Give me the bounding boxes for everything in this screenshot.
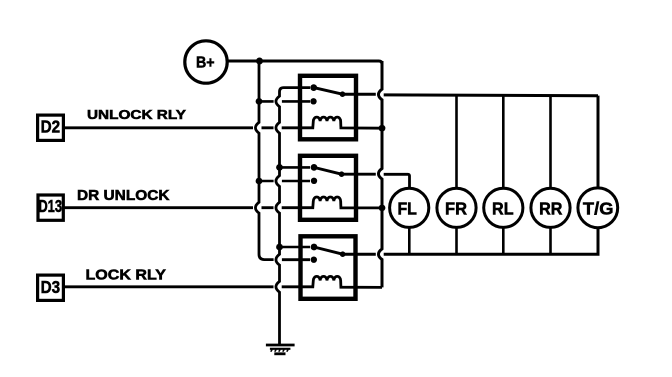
wire: ground bus (switch pivot feed) with hops [276,88,310,345]
wire relay3 output / bottom bus [343,228,598,254]
top bus right corner down to T/G [597,96,600,188]
wire D13 to relay2 coil, coil R2, to B+ bus [65,197,383,208]
relay1 pivot dot [310,84,317,91]
wire: relay1 NC contact feed [259,100,310,103]
svg-text:D13: D13 [38,196,62,216]
wire B+ to right bus corner [227,61,382,64]
relay2 pivot dot [311,164,318,171]
wire FR to bottom bus [455,228,458,254]
relay3 blade contact dot [340,251,346,257]
svg-text:FR: FR [445,198,467,218]
svg-text:RR: RR [539,198,563,218]
svg-text:B+: B+ [196,54,215,71]
svg-text:DR UNLOCK: DR UNLOCK [77,188,170,204]
relay3 blade [314,247,343,254]
svg-text:RL: RL [492,198,514,218]
B+ bus vertical with hops over relay outputs [378,61,382,287]
wire RL to bottom bus [502,228,505,254]
wire: left bus (NC contact feed) with hops over D2/D13 wires [255,61,310,260]
relay UNLOCK RLY box [300,76,356,140]
wire: relay2 pivot feed [280,166,311,169]
wire relay2 output to FL [342,174,410,188]
motor RL [484,188,523,227]
connector D13 [38,195,63,220]
relay1 blade [314,88,343,95]
ground [266,345,295,354]
relay2 blade contact dot [339,171,345,177]
relay DR UNLOCK box [300,156,356,220]
motor T/G [578,188,618,228]
svg-text:FL: FL [397,198,417,218]
relay LOCK RLY box [301,236,356,298]
wire: relay3 pivot feed [280,246,311,249]
svg-text:D3: D3 [41,277,61,297]
wire FL to bottom bus [408,228,411,254]
node: relay1 NC contact dot [310,98,316,104]
wire D3 to relay3 coil, coil R3, to B+ bus [64,276,382,287]
wire top bus drop to RR [549,96,552,188]
relay1 blade contact dot [340,91,346,97]
svg-text:D2: D2 [41,117,61,137]
svg-text:T/G: T/G [583,198,614,218]
node: pivot feed relay2 [276,164,283,171]
B+ terminal [185,41,227,83]
relay2 blade [314,167,342,174]
wire RR to bottom bus [549,228,552,254]
node: coil1 to bus [379,125,386,132]
motor FR [437,188,476,227]
node: pivot feed relay3 [276,244,283,251]
wire top bus drop to FR [455,95,458,187]
relay3 pivot dot [311,244,318,251]
connector D3 [38,275,64,300]
motor RR [531,188,570,227]
motor FL [390,188,429,227]
wire top bus drop to RL [502,95,505,187]
wire D2 to relay1 coil, coil R1, to B+ bus [64,117,382,128]
wire: relay2 NC contact feed [259,180,310,183]
node: relay3 NC contact dot [311,257,317,263]
node: relay2 NC contact dot [311,178,317,184]
wire relay1 output to top bus [343,94,599,95]
node: NC feed relay1 [256,98,263,105]
node: NC feed relay2 [256,178,263,185]
svg-text:LOCK RLY: LOCK RLY [86,267,167,283]
connector D2 [38,115,64,140]
node: B+ junction dot [256,58,263,65]
node: coil2 to bus [379,205,386,212]
svg-text:UNLOCK RLY: UNLOCK RLY [87,107,186,122]
